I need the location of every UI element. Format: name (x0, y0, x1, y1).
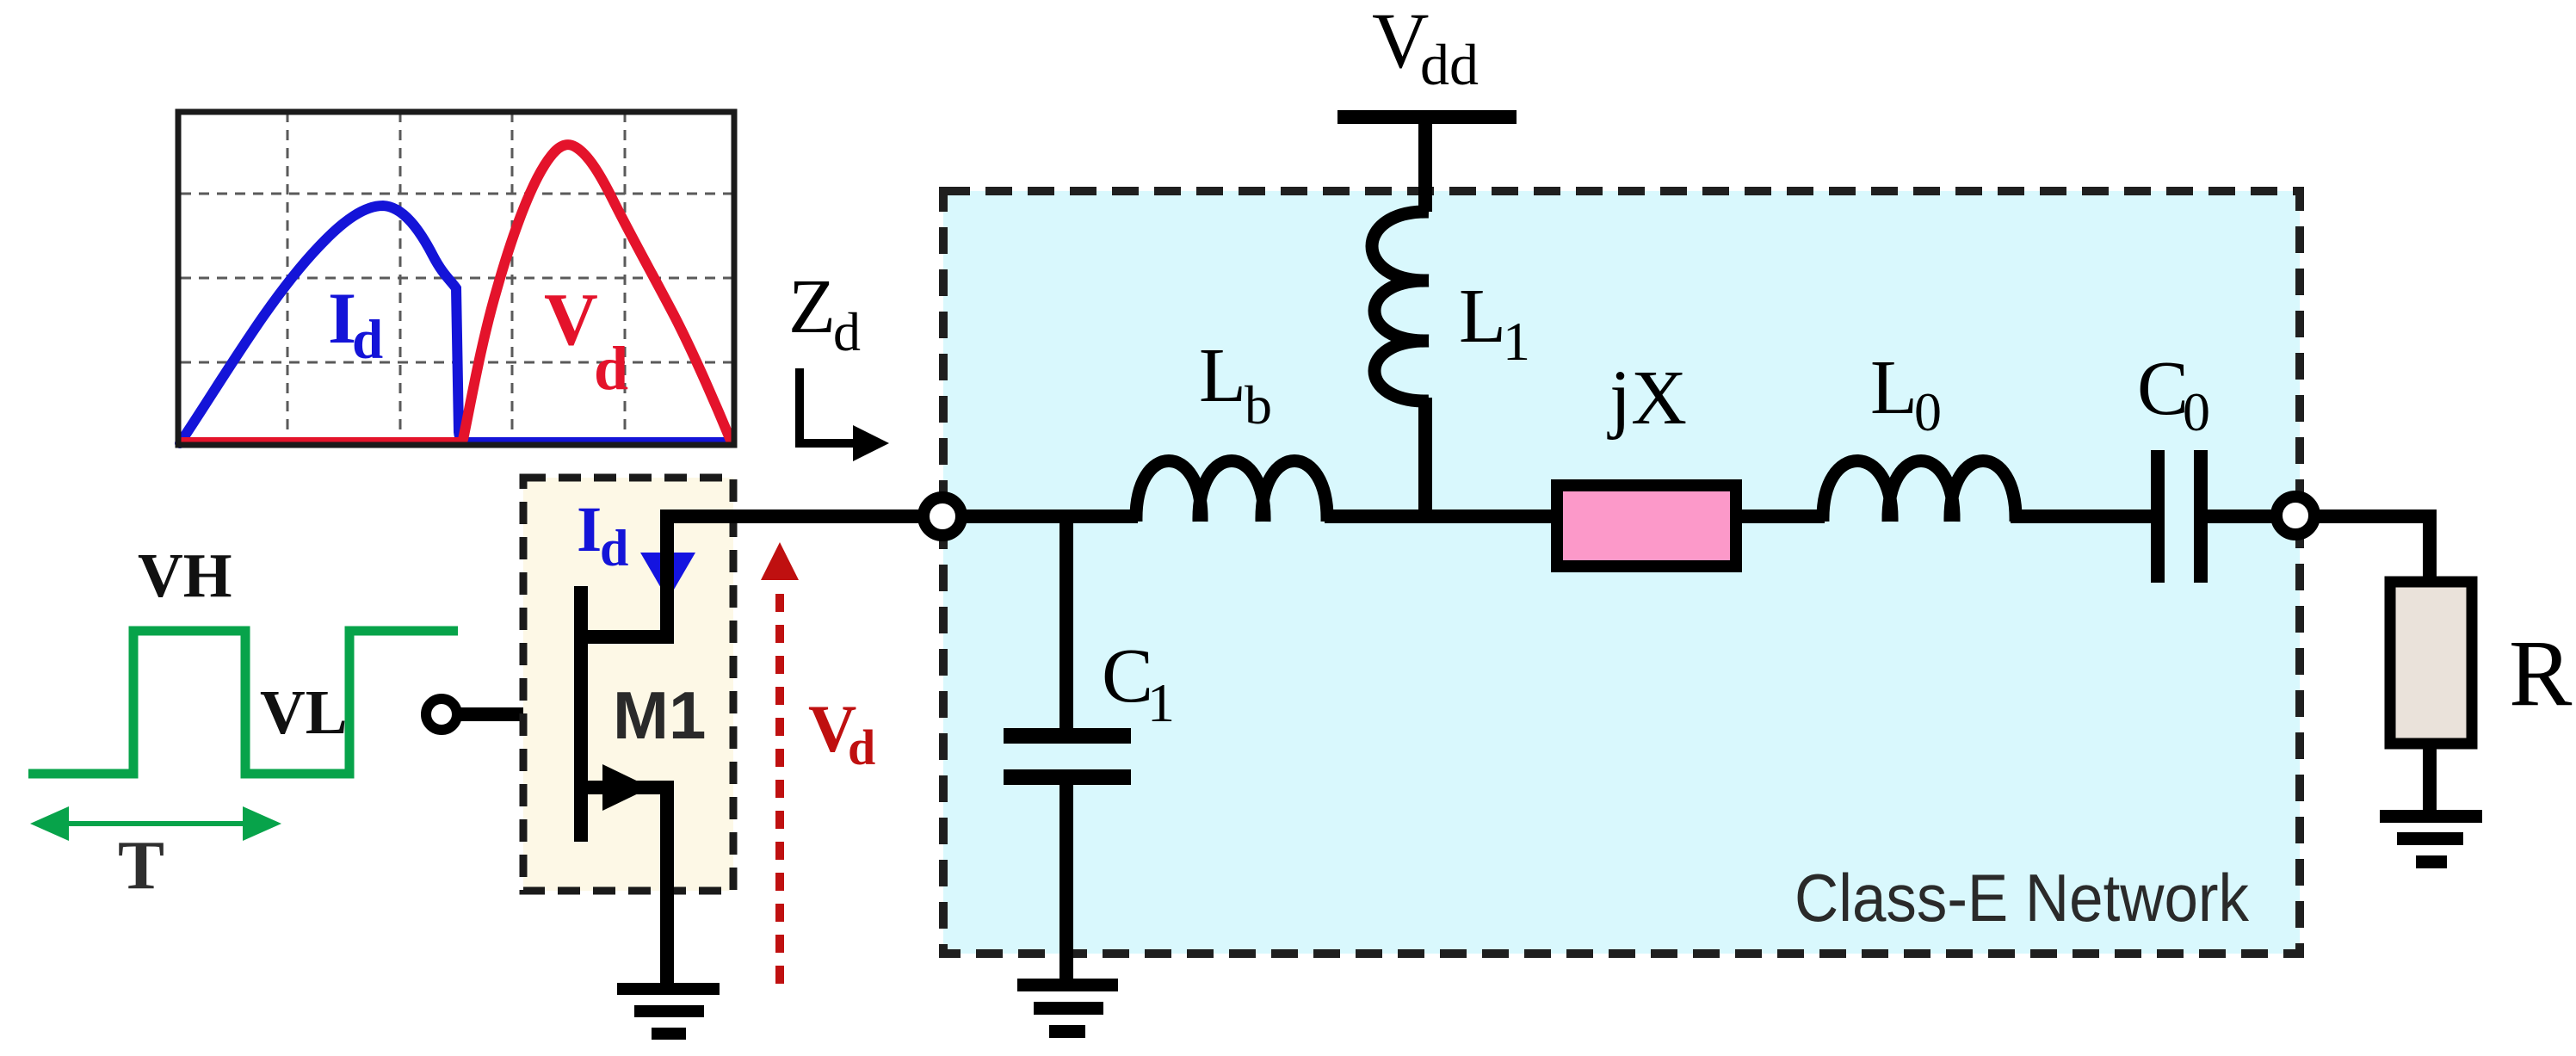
Zd arrow (800, 368, 855, 443)
node B (output) (2276, 497, 2314, 534)
gate wire (457, 707, 574, 721)
svg-text:VH: VH (138, 540, 232, 610)
jX element (1557, 485, 1736, 566)
inductor L1 (1372, 212, 1429, 401)
svg-text:I: I (577, 494, 602, 565)
wire: node A to Lb (965, 509, 1138, 523)
svg-text:M1: M1 (613, 677, 706, 753)
svg-text:d: d (600, 520, 628, 577)
wire: C0 to node B (2208, 509, 2273, 523)
svg-text:0: 0 (2183, 381, 2210, 442)
gate input terminal (426, 699, 457, 730)
capacitor C1 branch (1059, 516, 1073, 728)
inductor Lb (1136, 461, 1327, 522)
Class-E Network box (943, 191, 2300, 954)
Vdd supply bar (1337, 110, 1517, 124)
svg-text:L: L (1870, 345, 1918, 430)
wire: C1 to ground (1059, 785, 1073, 981)
svg-text:jX: jX (1607, 355, 1687, 441)
svg-text:L: L (1459, 274, 1506, 359)
wire: R to ground (2423, 744, 2437, 813)
svg-text:d: d (833, 301, 861, 362)
blue Id waveform curve (180, 206, 732, 443)
wire: jX to L0 (1742, 509, 1825, 523)
svg-text:VL: VL (260, 677, 347, 747)
capacitor C1 plates (1004, 728, 1131, 785)
svg-text:T: T (118, 826, 164, 904)
T period arrow (30, 806, 281, 841)
svg-text:Class-E Network: Class-E Network (1795, 860, 2250, 936)
wire: Vdd to L1 (1418, 117, 1432, 212)
red Vd waveform curve (182, 145, 731, 442)
source arrow (602, 764, 651, 811)
svg-text:V: V (544, 277, 598, 361)
svg-text:1: 1 (1503, 311, 1530, 372)
waveform plot frame (178, 112, 734, 445)
svg-text:d: d (848, 719, 875, 775)
svg-text:1: 1 (1147, 672, 1175, 733)
svg-text:C: C (1102, 633, 1153, 719)
svg-text:R: R (2509, 621, 2573, 726)
svg-text:C: C (2137, 346, 2189, 431)
ground (M1) (617, 983, 720, 1040)
wire: L1 to rail (1418, 398, 1432, 523)
svg-text:dd: dd (1420, 32, 1479, 97)
wire: Lb to jX junction (1325, 509, 1551, 523)
ground (C1) (1017, 979, 1118, 1038)
Vd dashed arrow (red) (775, 582, 784, 984)
capacitor C0 (2151, 450, 2208, 583)
svg-text:Z: Z (788, 264, 836, 349)
resistor R (2390, 582, 2472, 744)
wire: L0 to C0 (2011, 509, 2151, 523)
wire: drain to node A (667, 516, 920, 644)
svg-text:d: d (352, 309, 383, 371)
svg-text:L: L (1199, 333, 1246, 418)
svg-text:d: d (594, 334, 628, 403)
node A (input of network) (924, 497, 961, 535)
ground (R) (2380, 810, 2482, 868)
svg-text:0: 0 (1914, 381, 1942, 442)
green gate drive square wave (28, 631, 458, 774)
plot gridlines (181, 112, 734, 445)
waveform plot background (178, 112, 734, 445)
svg-text:b: b (1245, 374, 1272, 435)
wire: node B to R (2319, 516, 2430, 582)
M1 transistor box (523, 478, 733, 891)
transistor M1 symbol (574, 509, 674, 989)
Id arrow (blue) (640, 553, 695, 600)
inductor L0 (1823, 461, 2016, 522)
